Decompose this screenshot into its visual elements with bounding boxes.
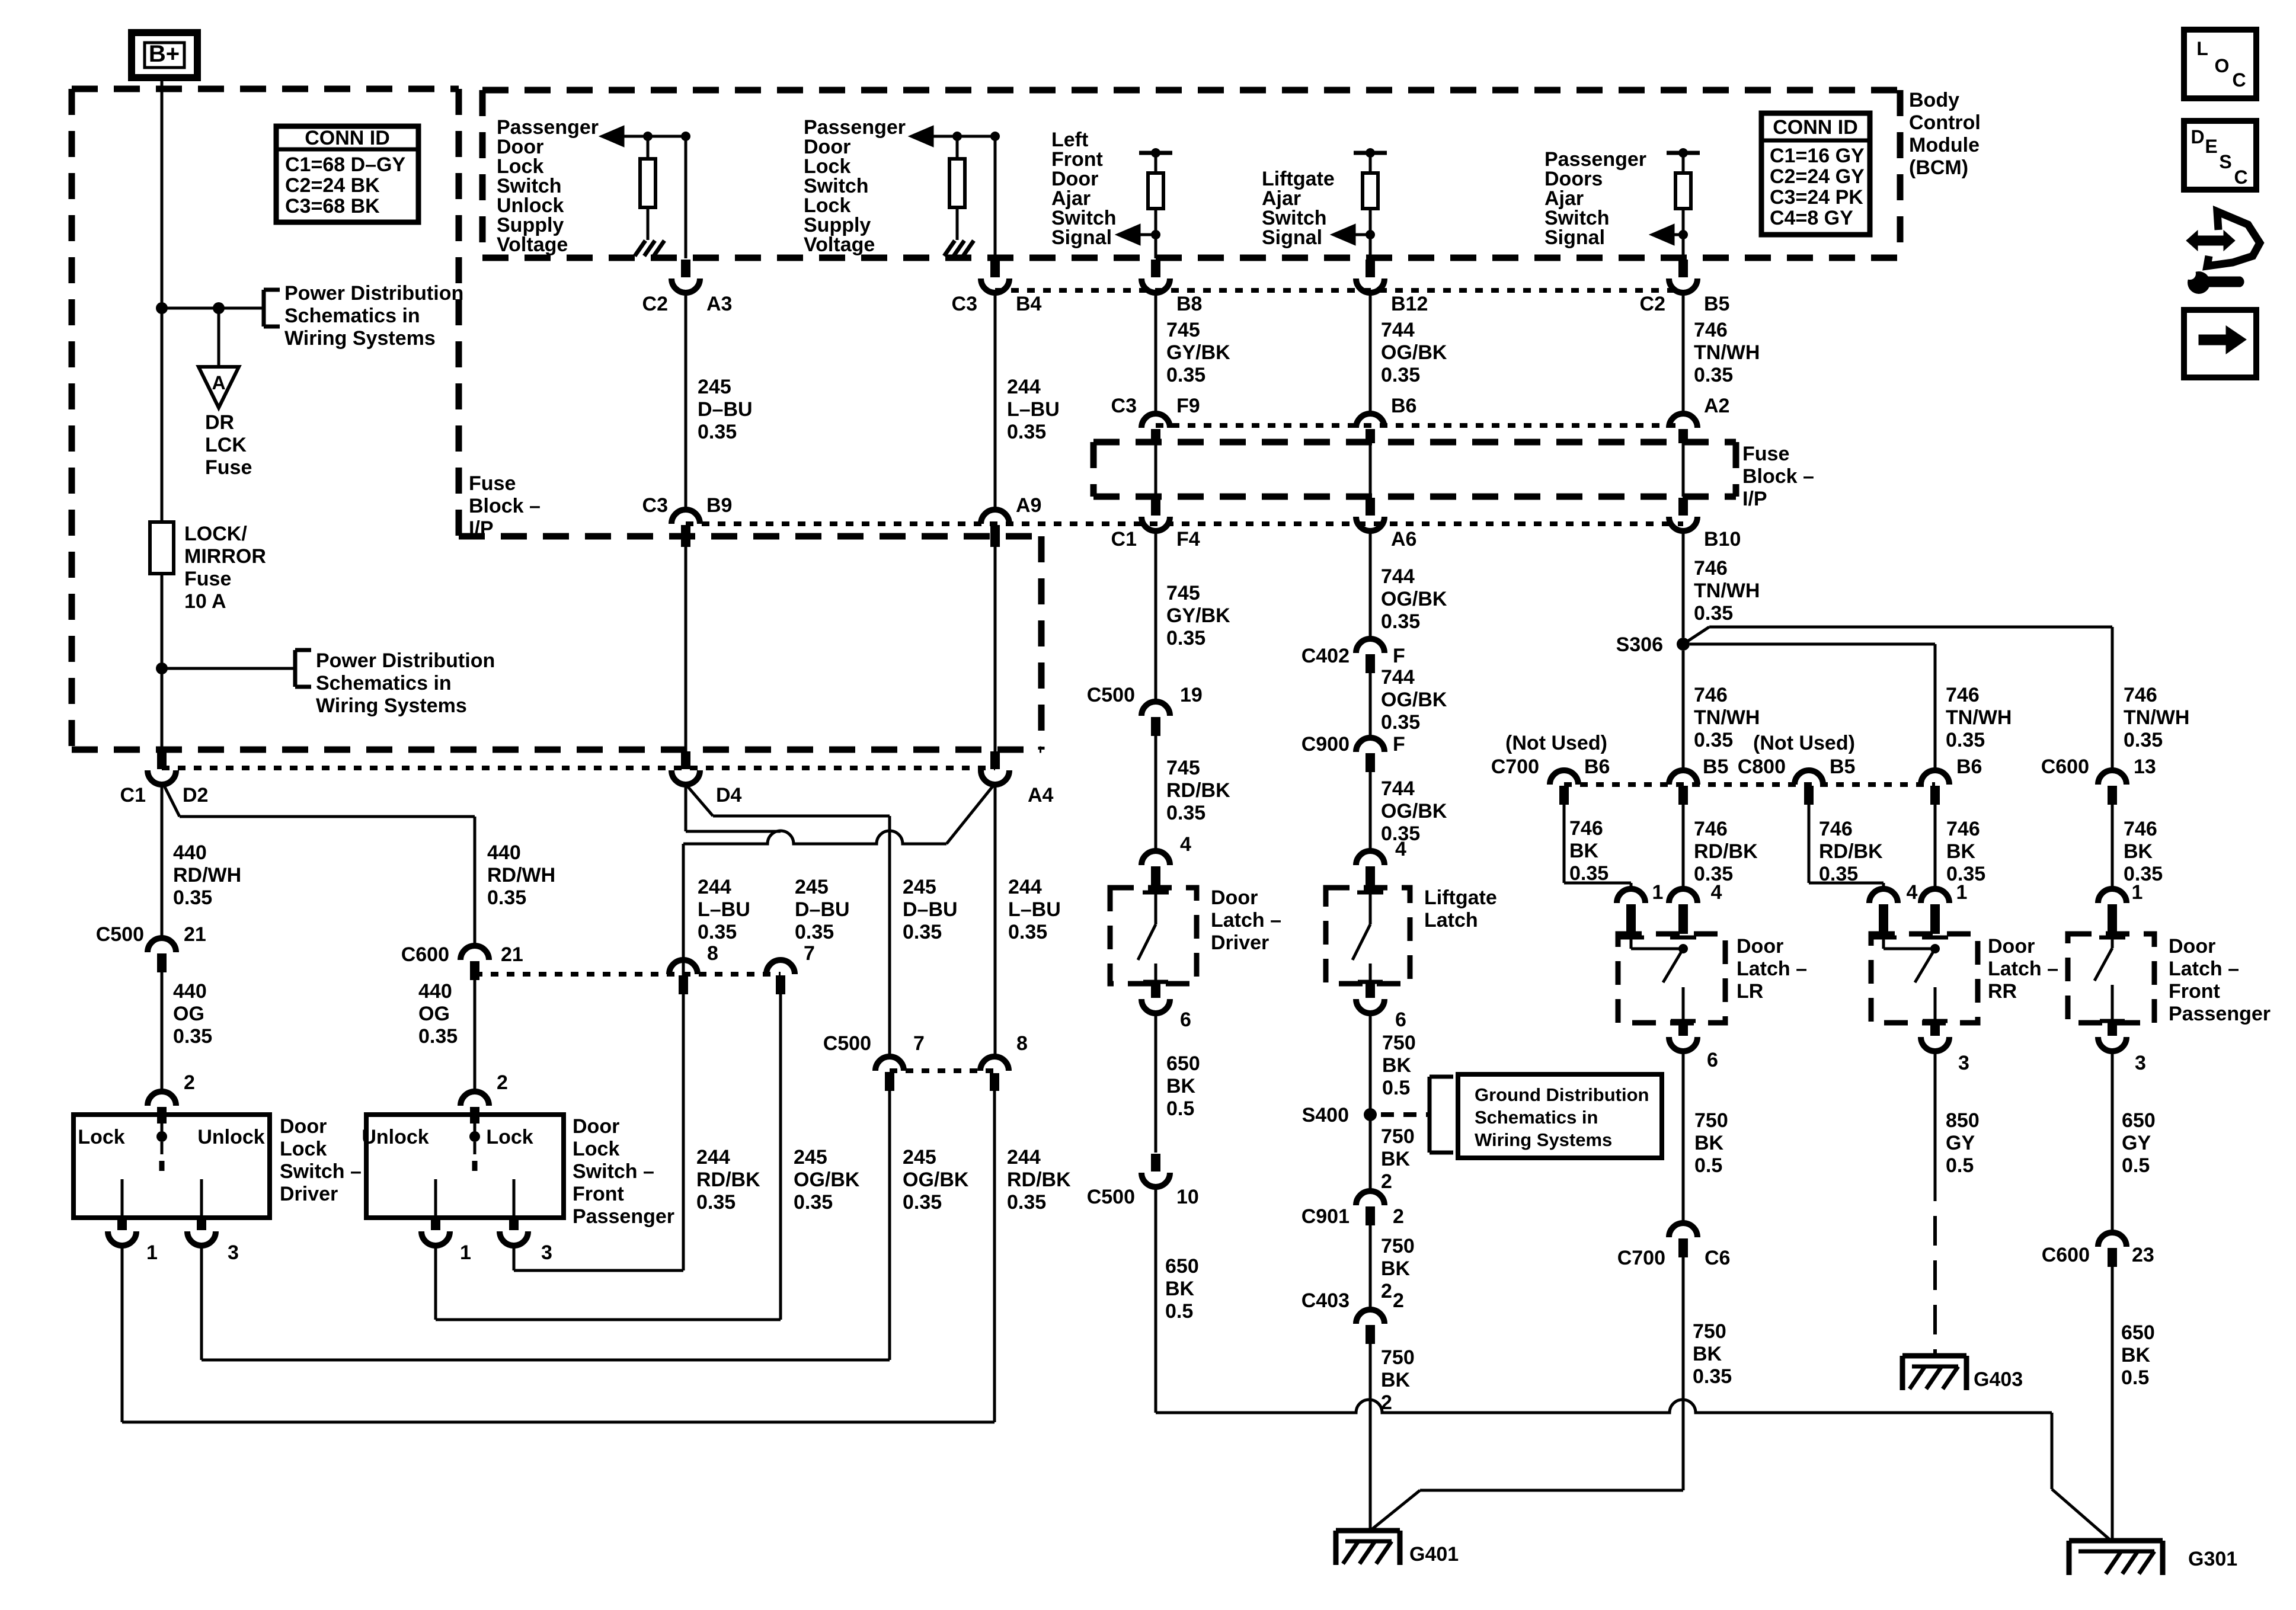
svg-text:2: 2 [1381, 1280, 1392, 1302]
svg-text:C3=24 PK: C3=24 PK [1770, 186, 1863, 209]
svg-text:245: 245 [794, 1146, 827, 1169]
svg-text:L–BU: L–BU [1008, 898, 1061, 921]
svg-text:B5: B5 [1830, 756, 1855, 778]
svg-text:G401: G401 [1409, 1543, 1459, 1566]
svg-text:(Not Used): (Not Used) [1753, 732, 1855, 754]
svg-text:0.35: 0.35 [418, 1025, 458, 1048]
svg-text:RD/BK: RD/BK [1819, 840, 1883, 863]
svg-text:RD/BK: RD/BK [696, 1169, 760, 1191]
svg-text:RD/BK: RD/BK [1007, 1169, 1071, 1191]
svg-text:2: 2 [1381, 1170, 1392, 1193]
svg-text:B9: B9 [706, 494, 732, 517]
svg-text:TN/WH: TN/WH [1946, 706, 2012, 729]
svg-text:C600: C600 [2042, 1244, 2090, 1266]
svg-text:C700: C700 [1617, 1247, 1665, 1269]
svg-text:TN/WH: TN/WH [1694, 706, 1760, 729]
svg-text:GY: GY [1946, 1132, 1975, 1154]
svg-text:Liftgate: Liftgate [1424, 886, 1497, 909]
svg-text:OG/BK: OG/BK [903, 1169, 969, 1191]
svg-text:Front: Front [2169, 980, 2220, 1003]
svg-text:0.5: 0.5 [1946, 1154, 1974, 1177]
svg-text:D: D [2191, 126, 2204, 148]
svg-text:750: 750 [1381, 1125, 1415, 1148]
svg-text:C500: C500 [1087, 1186, 1135, 1208]
svg-text:0.35: 0.35 [1007, 421, 1046, 443]
svg-text:0.35: 0.35 [1693, 1365, 1732, 1388]
svg-text:746: 746 [1946, 684, 1980, 706]
svg-text:LOCK/: LOCK/ [184, 523, 247, 545]
svg-text:B6: B6 [1391, 395, 1416, 417]
svg-text:0.35: 0.35 [903, 921, 942, 943]
svg-text:CONN ID: CONN ID [305, 127, 390, 149]
svg-text:C2=24 BK: C2=24 BK [285, 174, 380, 197]
svg-text:DR: DR [205, 411, 234, 434]
svg-text:A2: A2 [1704, 395, 1729, 417]
svg-text:TN/WH: TN/WH [2124, 706, 2189, 729]
svg-text:BK: BK [1381, 1369, 1411, 1391]
svg-text:440: 440 [487, 841, 521, 864]
svg-text:746: 746 [2124, 818, 2157, 840]
svg-text:C3: C3 [1111, 395, 1137, 417]
svg-text:746: 746 [1569, 817, 1603, 840]
svg-text:B+: B+ [149, 41, 180, 67]
svg-text:GY/BK: GY/BK [1166, 604, 1230, 627]
svg-text:Schematics in: Schematics in [284, 305, 420, 327]
svg-text:OG: OG [418, 1003, 450, 1025]
svg-text:Block –: Block – [469, 495, 541, 517]
svg-text:F: F [1393, 733, 1405, 756]
svg-text:Fuse: Fuse [1742, 443, 1789, 465]
svg-text:B5: B5 [1703, 756, 1728, 778]
svg-text:6: 6 [1180, 1009, 1191, 1031]
svg-text:L–BU: L–BU [1007, 398, 1060, 421]
svg-text:Wiring Systems: Wiring Systems [284, 327, 436, 350]
svg-text:750: 750 [1382, 1032, 1416, 1054]
svg-text:BK: BK [1381, 1148, 1411, 1170]
svg-text:Lock: Lock [486, 1126, 533, 1148]
svg-text:L–BU: L–BU [698, 898, 750, 921]
svg-text:4: 4 [1395, 838, 1406, 860]
svg-text:244: 244 [698, 876, 731, 898]
svg-text:2: 2 [1393, 1289, 1404, 1312]
svg-text:746: 746 [1694, 557, 1728, 580]
svg-text:0.35: 0.35 [487, 886, 526, 909]
svg-text:245: 245 [698, 376, 731, 398]
svg-text:A3: A3 [706, 293, 732, 315]
svg-text:D4: D4 [716, 784, 742, 806]
svg-text:C900: C900 [1302, 733, 1350, 756]
svg-text:A6: A6 [1391, 528, 1416, 550]
svg-text:746: 746 [1819, 818, 1853, 840]
svg-text:750: 750 [1381, 1346, 1415, 1369]
svg-text:0.35: 0.35 [1694, 364, 1733, 386]
svg-text:C2: C2 [642, 293, 668, 315]
svg-text:Switch –: Switch – [280, 1160, 362, 1183]
svg-text:E: E [2205, 136, 2217, 157]
svg-text:4: 4 [1180, 833, 1191, 856]
svg-text:Signal: Signal [1051, 226, 1112, 249]
svg-text:BK: BK [1382, 1054, 1412, 1077]
svg-text:0.35: 0.35 [1007, 1191, 1046, 1214]
svg-text:1: 1 [2132, 881, 2143, 904]
svg-text:A: A [212, 372, 225, 393]
svg-text:23: 23 [2132, 1244, 2154, 1266]
svg-text:Power Distribution: Power Distribution [284, 282, 463, 305]
svg-text:744: 744 [1381, 565, 1415, 588]
svg-text:F9: F9 [1176, 395, 1200, 417]
svg-text:10: 10 [1176, 1186, 1199, 1208]
svg-text:650: 650 [2121, 1321, 2155, 1344]
svg-text:LCK: LCK [205, 434, 247, 456]
svg-text:745: 745 [1166, 757, 1200, 779]
svg-text:C2=24 GY: C2=24 GY [1770, 165, 1865, 188]
svg-text:B5: B5 [1704, 293, 1729, 315]
svg-text:746: 746 [1946, 818, 1980, 840]
svg-text:Door: Door [573, 1115, 619, 1138]
svg-text:S: S [2219, 151, 2231, 172]
svg-text:0.35: 0.35 [698, 421, 737, 443]
svg-text:1: 1 [460, 1241, 471, 1264]
svg-text:0.5: 0.5 [1166, 1097, 1194, 1120]
svg-text:Block –: Block – [1742, 465, 1814, 488]
svg-text:GY/BK: GY/BK [1166, 341, 1230, 364]
svg-text:Unlock: Unlock [362, 1126, 428, 1148]
svg-text:D–BU: D–BU [795, 898, 850, 921]
svg-text:B6: B6 [1584, 756, 1610, 778]
svg-text:0.5: 0.5 [1165, 1300, 1193, 1323]
svg-text:0.35: 0.35 [1166, 364, 1205, 386]
svg-text:C1=68 D–GY: C1=68 D–GY [285, 153, 405, 176]
svg-text:Lock: Lock [280, 1138, 327, 1160]
svg-text:Latch: Latch [1424, 909, 1478, 932]
svg-text:B12: B12 [1391, 293, 1428, 315]
svg-text:Latch –: Latch – [1211, 909, 1281, 932]
svg-text:750: 750 [1694, 1109, 1728, 1132]
svg-text:6: 6 [1395, 1009, 1406, 1031]
svg-text:2: 2 [1393, 1205, 1404, 1228]
svg-text:C500: C500 [96, 923, 144, 946]
svg-text:244: 244 [1007, 1146, 1041, 1169]
svg-text:C402: C402 [1302, 645, 1350, 667]
svg-text:C2: C2 [1640, 293, 1665, 315]
svg-text:3: 3 [2135, 1052, 2146, 1074]
svg-text:650: 650 [2122, 1109, 2156, 1132]
svg-text:C3: C3 [642, 494, 668, 517]
svg-text:Control: Control [1909, 111, 1981, 134]
svg-text:A9: A9 [1016, 494, 1041, 517]
svg-text:C700: C700 [1491, 756, 1539, 778]
svg-text:Wiring Systems: Wiring Systems [1475, 1129, 1612, 1150]
svg-text:1: 1 [146, 1241, 158, 1264]
svg-text:745: 745 [1166, 319, 1200, 341]
svg-text:746: 746 [2124, 684, 2157, 706]
svg-text:Latch –: Latch – [1988, 958, 2058, 980]
svg-text:3: 3 [1958, 1052, 1969, 1074]
svg-text:(BCM): (BCM) [1909, 156, 1968, 179]
svg-text:0.35: 0.35 [794, 1191, 833, 1214]
svg-text:0.35: 0.35 [903, 1191, 942, 1214]
svg-text:BK: BK [2124, 840, 2153, 863]
svg-text:Passenger: Passenger [2169, 1003, 2271, 1025]
svg-text:0.5: 0.5 [1382, 1077, 1410, 1099]
svg-text:L: L [2196, 38, 2208, 59]
svg-text:BK: BK [2121, 1344, 2151, 1366]
svg-text:245: 245 [903, 1146, 936, 1169]
svg-text:6: 6 [1707, 1049, 1718, 1071]
svg-text:Door: Door [1988, 935, 2035, 958]
svg-text:10 A: 10 A [184, 590, 226, 613]
svg-text:OG/BK: OG/BK [1381, 800, 1447, 822]
svg-text:D–BU: D–BU [698, 398, 753, 421]
svg-text:TN/WH: TN/WH [1694, 580, 1760, 602]
svg-text:0.35: 0.35 [2124, 863, 2163, 885]
svg-text:C: C [2232, 69, 2246, 91]
svg-text:13: 13 [2134, 756, 2156, 778]
svg-text:C901: C901 [1302, 1205, 1350, 1228]
svg-text:Passenger: Passenger [573, 1205, 674, 1228]
svg-text:744: 744 [1381, 777, 1415, 800]
svg-text:Fuse: Fuse [469, 472, 516, 495]
svg-text:BK: BK [1946, 840, 1976, 863]
svg-text:Fuse: Fuse [184, 568, 231, 590]
svg-text:LR: LR [1737, 980, 1763, 1003]
svg-text:C500: C500 [1087, 684, 1135, 706]
svg-text:850: 850 [1946, 1109, 1980, 1132]
svg-text:8: 8 [1016, 1032, 1028, 1055]
svg-text:C600: C600 [2041, 756, 2089, 778]
svg-text:Latch –: Latch – [1737, 958, 1807, 980]
svg-text:0.35: 0.35 [1166, 627, 1205, 649]
svg-text:C600: C600 [401, 943, 449, 966]
svg-text:244: 244 [696, 1146, 730, 1169]
svg-text:Voltage: Voltage [497, 233, 568, 256]
svg-text:B4: B4 [1016, 293, 1042, 315]
svg-text:F4: F4 [1176, 528, 1200, 550]
svg-text:0.35: 0.35 [1569, 862, 1609, 885]
svg-text:(Not Used): (Not Used) [1505, 732, 1607, 754]
svg-text:B8: B8 [1176, 293, 1202, 315]
svg-text:C1: C1 [120, 784, 146, 806]
svg-text:8: 8 [707, 942, 718, 965]
svg-text:BK: BK [1693, 1343, 1722, 1365]
svg-text:Fuse: Fuse [205, 456, 252, 479]
svg-text:0.35: 0.35 [1381, 610, 1420, 633]
svg-text:0.35: 0.35 [1381, 364, 1420, 386]
svg-text:0.5: 0.5 [1694, 1154, 1722, 1177]
svg-text:B6: B6 [1956, 756, 1982, 778]
svg-text:C: C [2234, 167, 2247, 188]
svg-text:650: 650 [1165, 1255, 1199, 1278]
svg-text:744: 744 [1381, 666, 1415, 689]
svg-text:D2: D2 [183, 784, 208, 806]
svg-text:BK: BK [1166, 1075, 1196, 1097]
svg-text:0.35: 0.35 [795, 921, 834, 943]
svg-text:Lock: Lock [78, 1126, 124, 1148]
svg-text:0.35: 0.35 [1381, 711, 1420, 734]
svg-text:2: 2 [184, 1071, 195, 1094]
svg-text:Ground Distribution: Ground Distribution [1475, 1084, 1649, 1105]
svg-text:Schematics in: Schematics in [1475, 1107, 1598, 1128]
svg-text:Driver: Driver [1211, 932, 1269, 954]
svg-text:G301: G301 [2188, 1548, 2237, 1570]
svg-text:744: 744 [1381, 319, 1415, 341]
svg-text:BK: BK [1165, 1278, 1195, 1300]
svg-text:C403: C403 [1302, 1289, 1350, 1312]
svg-text:RD/WH: RD/WH [487, 864, 555, 886]
svg-text:3: 3 [228, 1241, 239, 1264]
svg-text:746: 746 [1694, 319, 1728, 341]
svg-text:S306: S306 [1616, 633, 1663, 656]
svg-text:Driver: Driver [280, 1183, 338, 1205]
svg-text:2: 2 [1381, 1391, 1392, 1414]
svg-text:C4=8 GY: C4=8 GY [1770, 207, 1853, 229]
svg-text:Door: Door [280, 1115, 327, 1138]
svg-text:C500: C500 [823, 1032, 871, 1055]
svg-text:Lock: Lock [573, 1138, 619, 1160]
svg-text:C6: C6 [1705, 1247, 1730, 1269]
svg-text:CONN ID: CONN ID [1773, 116, 1858, 139]
svg-text:Door: Door [1211, 886, 1258, 909]
svg-text:0.35: 0.35 [2124, 729, 2163, 751]
svg-text:650: 650 [1166, 1052, 1200, 1075]
svg-text:RD/WH: RD/WH [173, 864, 241, 886]
svg-text:21: 21 [184, 923, 206, 946]
svg-text:BK: BK [1569, 840, 1599, 862]
svg-text:0.35: 0.35 [1819, 863, 1858, 885]
svg-text:OG/BK: OG/BK [794, 1169, 860, 1191]
svg-text:Signal: Signal [1544, 226, 1605, 249]
svg-text:0.35: 0.35 [1946, 729, 1985, 751]
svg-text:Schematics in: Schematics in [316, 672, 452, 694]
svg-text:Body: Body [1909, 89, 1959, 111]
svg-text:Door: Door [2169, 935, 2215, 958]
svg-text:750: 750 [1381, 1235, 1415, 1257]
svg-text:19: 19 [1180, 684, 1203, 706]
svg-text:0.35: 0.35 [696, 1191, 736, 1214]
svg-text:GY: GY [2122, 1132, 2151, 1154]
svg-text:B10: B10 [1704, 528, 1741, 550]
svg-text:7: 7 [804, 942, 815, 965]
svg-text:Power Distribution: Power Distribution [316, 649, 495, 672]
svg-text:D–BU: D–BU [903, 898, 958, 921]
svg-text:C1: C1 [1111, 528, 1137, 550]
svg-text:Module: Module [1909, 134, 1980, 156]
svg-text:I/P: I/P [469, 517, 494, 540]
svg-text:1: 1 [1956, 881, 1968, 904]
svg-text:Voltage: Voltage [804, 233, 875, 256]
svg-text:OG/BK: OG/BK [1381, 341, 1447, 364]
svg-text:745: 745 [1166, 582, 1200, 604]
svg-text:I/P: I/P [1742, 488, 1767, 510]
svg-text:TN/WH: TN/WH [1694, 341, 1760, 364]
svg-text:440: 440 [173, 980, 207, 1003]
svg-text:750: 750 [1693, 1320, 1726, 1343]
svg-text:OG/BK: OG/BK [1381, 588, 1447, 610]
svg-text:0.5: 0.5 [2122, 1154, 2150, 1177]
svg-text:0.35: 0.35 [1166, 802, 1205, 824]
svg-text:0.35: 0.35 [1694, 602, 1733, 625]
svg-text:C1=16 GY: C1=16 GY [1770, 145, 1865, 167]
svg-text:F: F [1393, 645, 1405, 667]
svg-text:Latch –: Latch – [2169, 958, 2239, 980]
svg-text:C3=68 BK: C3=68 BK [285, 195, 380, 217]
svg-text:O: O [2215, 55, 2230, 76]
svg-text:Wiring Systems: Wiring Systems [316, 694, 467, 717]
svg-text:RD/BK: RD/BK [1166, 779, 1230, 802]
svg-text:245: 245 [903, 876, 936, 898]
svg-text:C800: C800 [1738, 756, 1786, 778]
svg-text:A4: A4 [1028, 784, 1054, 806]
svg-text:Front: Front [573, 1183, 624, 1205]
svg-text:746: 746 [1694, 684, 1728, 706]
svg-text:OG: OG [173, 1003, 204, 1025]
svg-text:0.35: 0.35 [173, 886, 212, 909]
svg-text:244: 244 [1008, 876, 1042, 898]
svg-text:1: 1 [1652, 881, 1664, 904]
svg-text:S400: S400 [1302, 1104, 1349, 1126]
svg-text:RD/BK: RD/BK [1694, 840, 1758, 863]
svg-text:OG/BK: OG/BK [1381, 689, 1447, 711]
svg-text:4: 4 [1907, 881, 1918, 904]
svg-text:3: 3 [541, 1241, 552, 1264]
svg-text:746: 746 [1694, 818, 1728, 840]
svg-text:C3: C3 [952, 293, 977, 315]
svg-text:440: 440 [418, 980, 452, 1003]
svg-text:Door: Door [1737, 935, 1783, 958]
svg-text:440: 440 [173, 841, 207, 864]
svg-text:G403: G403 [1974, 1368, 2023, 1391]
svg-text:0.5: 0.5 [2121, 1366, 2149, 1389]
svg-text:244: 244 [1007, 376, 1041, 398]
svg-text:245: 245 [795, 876, 829, 898]
svg-text:BK: BK [1694, 1132, 1724, 1154]
svg-text:4: 4 [1711, 881, 1722, 904]
svg-text:MIRROR: MIRROR [184, 545, 266, 568]
svg-text:0.35: 0.35 [173, 1025, 212, 1048]
svg-text:7: 7 [913, 1032, 925, 1055]
svg-text:0.35: 0.35 [1694, 729, 1733, 751]
svg-text:21: 21 [501, 943, 523, 966]
svg-text:Switch –: Switch – [573, 1160, 654, 1183]
svg-text:RR: RR [1988, 980, 2017, 1003]
svg-text:0.35: 0.35 [698, 921, 737, 943]
svg-text:0.35: 0.35 [1008, 921, 1047, 943]
svg-text:Unlock: Unlock [197, 1126, 264, 1148]
svg-text:Signal: Signal [1262, 226, 1322, 249]
svg-text:BK: BK [1381, 1257, 1411, 1280]
svg-text:2: 2 [497, 1071, 508, 1094]
